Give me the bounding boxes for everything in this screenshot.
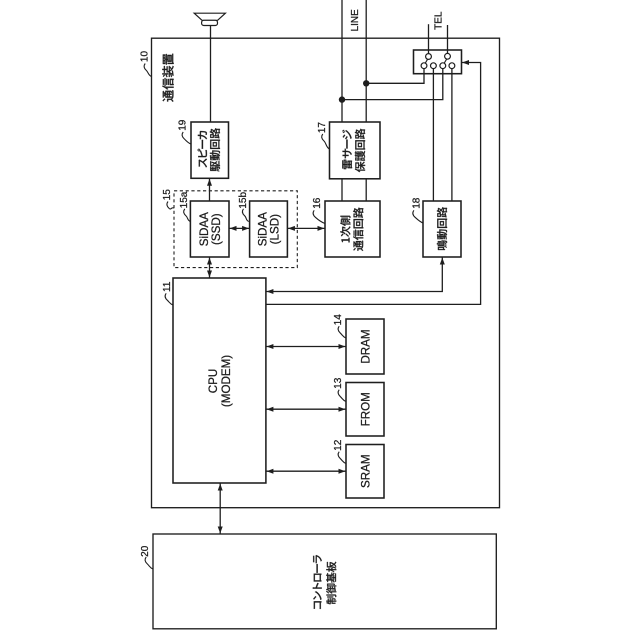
wire LINE left <box>341 0 343 122</box>
svg-text:SRAM: SRAM <box>359 455 372 489</box>
box 14 DRAM <box>346 319 384 374</box>
wire CPU to controller board <box>219 483 221 534</box>
label 20 <box>140 545 151 557</box>
svg-text:18: 18 <box>412 197 423 209</box>
arrowhead into CPU top <box>207 271 212 278</box>
box 20 controller control board <box>153 534 496 629</box>
text DRAM <box>359 329 372 363</box>
text SiDAA (SSD) <box>198 212 223 246</box>
svg-text:15a: 15a <box>179 191 190 208</box>
connector pin circle bottom-2 <box>431 63 437 69</box>
text FROM <box>359 392 372 426</box>
svg-text:DRAM: DRAM <box>359 329 372 363</box>
svg-text:16: 16 <box>312 197 323 209</box>
wire pin3 to LINE-left <box>342 69 443 100</box>
label TEL <box>433 11 444 30</box>
leader for 18 <box>413 210 423 223</box>
svg-text:20: 20 <box>140 545 151 557</box>
switch contact right <box>444 59 447 63</box>
label 14 <box>333 314 344 326</box>
text CPU (MODEM) <box>207 355 233 407</box>
text SRAM <box>359 455 372 489</box>
wire CPU to 18 <box>266 257 442 292</box>
box 17 lightning surge protection circuit <box>330 122 381 179</box>
svg-text:17: 17 <box>317 122 328 134</box>
arrowhead into DRAM <box>339 344 346 349</box>
label 15b <box>238 192 249 209</box>
text SiDAA (LSD) <box>257 212 282 246</box>
box 11 CPU (MODEM) <box>173 278 266 483</box>
wire pin1 to LINE-right <box>366 69 424 84</box>
box 16 primary-side communication circuit <box>325 201 380 257</box>
arrowhead into FROM <box>339 407 346 412</box>
arrowhead into CPU at FROM <box>267 407 274 412</box>
leader for 20 <box>145 557 153 569</box>
label 19 <box>177 119 188 131</box>
wire CPU to SRAM <box>266 470 346 472</box>
arrowhead into controller board <box>218 527 223 534</box>
svg-text:19: 19 <box>177 119 188 131</box>
wire CPU to 15a <box>209 257 211 278</box>
box 15b SiDAA(LSD) <box>250 201 288 257</box>
svg-text:10: 10 <box>139 51 150 63</box>
leader for 10 <box>144 64 151 77</box>
arrowhead into CPU at SRAM <box>267 469 274 474</box>
text in box 18 <box>437 207 447 250</box>
arrowhead into 15a bottom <box>207 258 212 265</box>
leader for 16 <box>313 210 325 223</box>
leader for 17 <box>322 134 330 149</box>
label 15 <box>162 189 173 201</box>
connector pin circle top-right <box>445 53 451 59</box>
leader for 15 <box>167 202 174 210</box>
arrowhead into 15b right <box>288 226 295 231</box>
arrowhead into CPU from 18 <box>267 289 274 294</box>
label 17 <box>317 122 328 134</box>
dashed box 15 (SiDAA group) <box>174 191 297 268</box>
connector pin circle top-left <box>426 54 432 60</box>
wire CPU to FROM <box>266 408 346 410</box>
connector box <box>414 50 462 74</box>
arrowhead into 16 <box>318 226 325 231</box>
svg-text:(MODEM): (MODEM) <box>220 355 233 407</box>
svg-text:LINE: LINE <box>350 9 361 32</box>
switch contact left <box>425 59 427 63</box>
arrowhead into 18 bottom <box>440 258 445 265</box>
wire 15a to 15b <box>229 227 250 229</box>
junction dot on LINE left <box>339 96 345 102</box>
connector pin circle bottom-4 <box>449 63 455 69</box>
svg-text:CPU: CPU <box>207 369 220 393</box>
wire LINE right <box>365 0 367 122</box>
svg-text:TEL: TEL <box>433 11 444 30</box>
box 19 speaker drive circuit <box>191 122 229 178</box>
svg-text:(SSD): (SSD) <box>210 213 223 245</box>
wire 15b to 16 <box>287 227 325 229</box>
label 13 <box>333 377 344 389</box>
label 18 <box>412 197 423 209</box>
text controller control board <box>313 555 337 609</box>
arrowhead into 15b <box>242 226 249 231</box>
svg-text:14: 14 <box>333 314 344 326</box>
arrowhead into CPU bottom <box>218 484 223 491</box>
label 11 <box>162 281 173 292</box>
arrowhead into connector <box>462 60 469 65</box>
outer box 10 (communication device) <box>152 38 500 508</box>
arrowhead into 19 <box>207 179 212 186</box>
wire TEL left <box>428 24 430 53</box>
wire 17 to 16 right <box>365 179 367 201</box>
junction dot on LINE right <box>363 80 369 86</box>
svg-text:FROM: FROM <box>359 392 372 426</box>
wire 15a to 19 <box>209 178 211 201</box>
label 15a <box>179 191 190 208</box>
wire 17 to 16 left <box>341 179 343 201</box>
wire CPU to DRAM <box>266 346 346 348</box>
leader for 19 <box>182 132 191 144</box>
box 12 SRAM <box>346 445 384 499</box>
svg-text:12: 12 <box>333 439 344 451</box>
svg-text:(LSD): (LSD) <box>268 214 281 244</box>
label TSUSHIN-SOCHI (communication device) <box>162 54 173 102</box>
leader for 13 <box>338 390 346 402</box>
wire pin2 to ringing circuit <box>432 69 434 201</box>
svg-text:11: 11 <box>162 281 173 292</box>
arrowhead into CPU at DRAM <box>267 344 274 349</box>
svg-text:15b: 15b <box>238 192 249 209</box>
speaker icon <box>194 13 225 20</box>
box 15a SiDAA(SSD) <box>190 201 229 257</box>
text in box 17 <box>342 129 365 173</box>
label 10 <box>139 51 150 63</box>
wire pin4 to ringing circuit <box>451 69 453 201</box>
svg-text:15: 15 <box>162 189 173 201</box>
wire speaker to box 19 <box>210 26 212 123</box>
arrowhead into SRAM <box>339 469 346 474</box>
leader for 12 <box>338 452 346 464</box>
arrowhead into 15a <box>230 226 237 231</box>
box 13 FROM <box>346 383 384 437</box>
label 16 <box>312 197 323 209</box>
leader for 15a <box>184 209 191 222</box>
text in box 16 <box>340 207 363 250</box>
leader for 14 <box>338 326 346 338</box>
box 18 ringing circuit <box>423 201 461 257</box>
wire TEL right <box>447 25 449 53</box>
wire CPU to connector <box>266 63 481 305</box>
text in box 19 <box>198 128 220 171</box>
connector pin circle bottom-3 <box>440 63 446 69</box>
leader for 11 <box>165 293 173 305</box>
label 12 <box>333 439 344 451</box>
connector pin circle bottom-1 <box>421 63 427 69</box>
svg-text:13: 13 <box>333 377 344 389</box>
leader for 15b <box>242 209 248 222</box>
label LINE <box>350 9 361 32</box>
